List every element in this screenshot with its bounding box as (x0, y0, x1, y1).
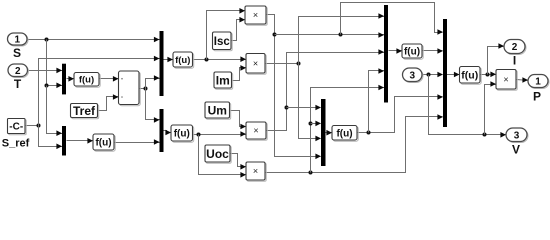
node f(u) U3 output junction (205, 58, 209, 62)
svg-text:S_ref: S_ref (2, 138, 30, 150)
wire Isc to product X1 input 2 (231, 20, 245, 41)
svg-text:2: 2 (512, 42, 518, 53)
wire In3 down along V line to Out3 (429, 75, 507, 135)
node X3 output junction (285, 106, 289, 110)
Im block (215, 73, 233, 89)
wire Um to product X3 input 1 (230, 111, 247, 127)
wire X3 junction to Mux M5 input 1 (287, 107, 321, 109)
node X4 bottom junction (309, 171, 313, 175)
wire S_ref from constant (25, 125, 39, 127)
svg-text:Tref: Tref (73, 104, 96, 118)
wire S down to Mux M2 input 1 (47, 86, 63, 134)
wire Mux M5 output to f(u) U5 (326, 132, 333, 134)
wire junction up to Mux M3 input 3 (146, 79, 160, 89)
svg-text:T: T (14, 77, 22, 91)
wire In3 to Mux M7 input 3 (423, 74, 443, 76)
svg-text:f(u): f(u) (79, 75, 94, 86)
wire S down to Mux M1 input 2 (47, 40, 63, 86)
f(u) U3 (174, 53, 194, 68)
svg-text:×: × (253, 10, 258, 20)
svg-text:f(u): f(u) (95, 138, 111, 149)
wire S_ref up to Mux M3 input 2 (39, 59, 160, 126)
wire tap to Mux M5 input 2 (311, 123, 321, 125)
wire f(u) U7 output to product X5 input 1 (481, 74, 497, 76)
svg-text:P: P (533, 90, 541, 104)
product X1 (246, 7, 267, 25)
f(u) U2 bottom-left (94, 135, 115, 151)
wire top route over to Mux M7 input 1 (341, 3, 443, 35)
wire Tref to subsystem block input 2 (98, 97, 119, 111)
svg-text:×: × (253, 166, 258, 176)
wire T to Mux M1 input 1 (28, 70, 63, 72)
wire f(u) U5 output east then up to Mux M7 input 4 (357, 97, 443, 133)
mux M4 lower (160, 109, 164, 152)
svg-text:f(u): f(u) (175, 55, 190, 66)
svg-text:×: × (253, 126, 258, 136)
svg-text:Um: Um (208, 103, 227, 117)
wire X4 junction up to Mux M6 input 5 (311, 88, 385, 173)
svg-text:-C-: -C- (9, 122, 23, 133)
svg-text:Im: Im (216, 73, 230, 87)
svg-text:f(u): f(u) (174, 129, 190, 140)
svg-text:3: 3 (409, 70, 415, 81)
wire f(u) U4 output to product X3 input 2 (193, 134, 247, 136)
wire X2 junction down to Mux M5 input 3 (299, 64, 321, 139)
svg-text:Isc: Isc (214, 36, 231, 48)
wire f(u) U3 output to product X2 input 1 (193, 59, 247, 61)
svg-text:×: × (503, 74, 508, 84)
mux M5 (321, 99, 326, 166)
svg-text:f(u): f(u) (336, 128, 352, 139)
f(u) U6 (403, 45, 423, 59)
wire f(u) U6 output to Mux M7 input 2 (423, 50, 443, 52)
node X1 output junction (273, 33, 277, 37)
mux M3 (160, 31, 164, 96)
wire Uoc to product X4 input 1 (231, 154, 247, 167)
wire V branch up to product X5 input 2 (485, 85, 497, 135)
wire f(u) U2 output to Mux M4 input 2 (115, 142, 160, 144)
node V line junction (483, 133, 487, 137)
subsystem block (120, 72, 141, 106)
wire X1 junction to Mux M6 input 2 (275, 34, 385, 36)
wire Mux M6 output to f(u) U6 (389, 50, 403, 52)
wire Im to product X2 input 2 (232, 68, 247, 81)
node f(u) U5 output junction (367, 131, 371, 135)
product X2 (247, 55, 266, 74)
wire product X5 output to Out1 P (517, 80, 529, 81)
outport 2 I (505, 41, 526, 55)
svg-text:Uoc: Uoc (206, 147, 229, 161)
wire product X3 output up to Mux M6 input 3 (267, 53, 385, 131)
f(u) U4 (172, 126, 194, 142)
f(u) U5 (333, 127, 358, 142)
mux M1 (62, 64, 66, 95)
f(u) U1 (75, 74, 100, 88)
inport 3 (404, 69, 424, 83)
svg-text:V: V (512, 143, 520, 157)
Tref block (72, 105, 99, 119)
svg-text:3: 3 (514, 130, 520, 141)
node top route junction (339, 33, 343, 37)
wire X2 junction up to Mux M6 input 1 (299, 17, 385, 64)
Uoc block (206, 146, 231, 163)
wire f(u) U1 output to subsystem block input 1 (99, 78, 119, 80)
svg-text:S: S (13, 46, 21, 60)
wire Mux M2 output to f(u) U2 (67, 140, 93, 142)
mux M7 right collector (443, 19, 447, 127)
mux M6 main collector (384, 5, 388, 103)
constant -C- S_ref (9, 120, 27, 135)
wire junction up to product X1 input 1 (207, 11, 245, 60)
svg-text:I: I (513, 54, 516, 68)
wire I branch up to Out2 (488, 47, 505, 75)
svg-text:1: 1 (14, 35, 20, 46)
Um block (206, 103, 231, 119)
node f(u) U4 output junction (197, 133, 201, 137)
node In3 junction (427, 73, 431, 77)
wire S from In1 to Mux M3 input 1 (27, 39, 160, 41)
outport 1 P (529, 76, 549, 89)
Isc block (214, 33, 233, 51)
node S branch junction (45, 38, 49, 42)
wire Mux M1 output to f(u) U1 (67, 78, 75, 80)
arrowheads at wire endpoints (154, 37, 160, 43)
wire Mux M3 output to f(u) U3 (164, 59, 173, 61)
subsystem port marks (121, 78, 123, 80)
inport 2 T (9, 65, 29, 78)
product X4 (247, 163, 266, 181)
wire junction down to Mux M4 input 1 (146, 89, 160, 120)
wire product X4 output along bottom then up to Mux M7 input 5 (265, 117, 443, 173)
wire subsystem output to junction (139, 88, 146, 90)
node Mux M5 input 2 tap junction (309, 122, 313, 126)
svg-text:×: × (253, 58, 258, 68)
svg-text:f(u): f(u) (461, 70, 478, 82)
mux M2 lower-left (62, 126, 66, 156)
wire S_ref down to Mux M2 input 2 (39, 126, 63, 147)
wire U5 junction up to Mux M6 input 4 (369, 71, 385, 133)
product X5 (497, 71, 517, 91)
f(u) U7 (461, 68, 482, 85)
wire Mux M4 output to f(u) U4 (164, 131, 171, 133)
svg-text:1: 1 (535, 77, 541, 88)
inport 1 S (9, 34, 29, 46)
product X3 (247, 123, 267, 140)
node I junction (486, 73, 490, 77)
wire product X1 output down the left feed column to Mux M5 input 4 (267, 15, 321, 157)
svg-text:2: 2 (15, 66, 21, 77)
wire Mux M7 output to f(u) U7 (447, 74, 460, 76)
svg-text:f(u): f(u) (404, 47, 420, 58)
wire junction down to product X4 input 2 (199, 135, 247, 175)
outport 3 V (507, 129, 528, 143)
wire product X2 output to junction (265, 63, 299, 65)
